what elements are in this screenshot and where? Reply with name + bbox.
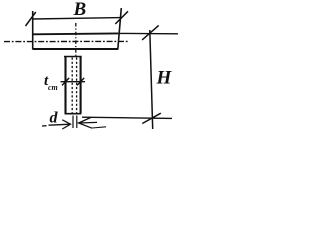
svg-text:d: d [50, 110, 59, 127]
web bottom edge [65, 113, 82, 115]
hidden hole line left (dotted) [71, 58, 73, 114]
extension stroke left of d (hole edge extended) [72, 116, 74, 129]
extension line left (flange left edge extended) [32, 11, 34, 50]
svg-text:ст: ст [48, 83, 58, 92]
web right edge [80, 57, 82, 114]
horizontal centerline (dash-dot) [4, 40, 128, 42]
flange top edge [33, 32, 119, 35]
dimension line d right segment [79, 121, 97, 124]
arrowhead of d left (pointing right) [62, 120, 70, 129]
web top edge [64, 56, 82, 58]
tick slash right of B [115, 11, 128, 24]
extension line right (flange right edge extended) [118, 8, 122, 50]
vertical centerline in flange (dashed) [75, 23, 77, 56]
dimension line t_st [61, 81, 86, 83]
extension stroke right of d (hole edge extended) [76, 116, 78, 129]
extension line from flange top to H dimension [118, 32, 178, 34]
tick slash left of B [26, 12, 36, 26]
arrowhead of d right (pointing left) [79, 117, 92, 128]
dimension line H (vertical) [150, 30, 153, 129]
tick slash right of t_st [77, 78, 84, 86]
arrow stroke extension lower right of d [92, 127, 106, 128]
web left edge [64, 57, 66, 114]
svg-text:B: B [73, 0, 87, 20]
extension line bottom (web bottom to H dimension) [82, 117, 172, 118]
dimension line d left segment [42, 124, 71, 126]
tick slash bottom of H [142, 113, 161, 123]
tick slash left of t_st [62, 78, 69, 86]
dimension line B [33, 18, 122, 19]
tick slash top of H [142, 25, 159, 40]
svg-text:H: H [156, 68, 173, 89]
hidden hole line right (dotted) [76, 58, 78, 114]
flange bottom edge [33, 48, 118, 50]
